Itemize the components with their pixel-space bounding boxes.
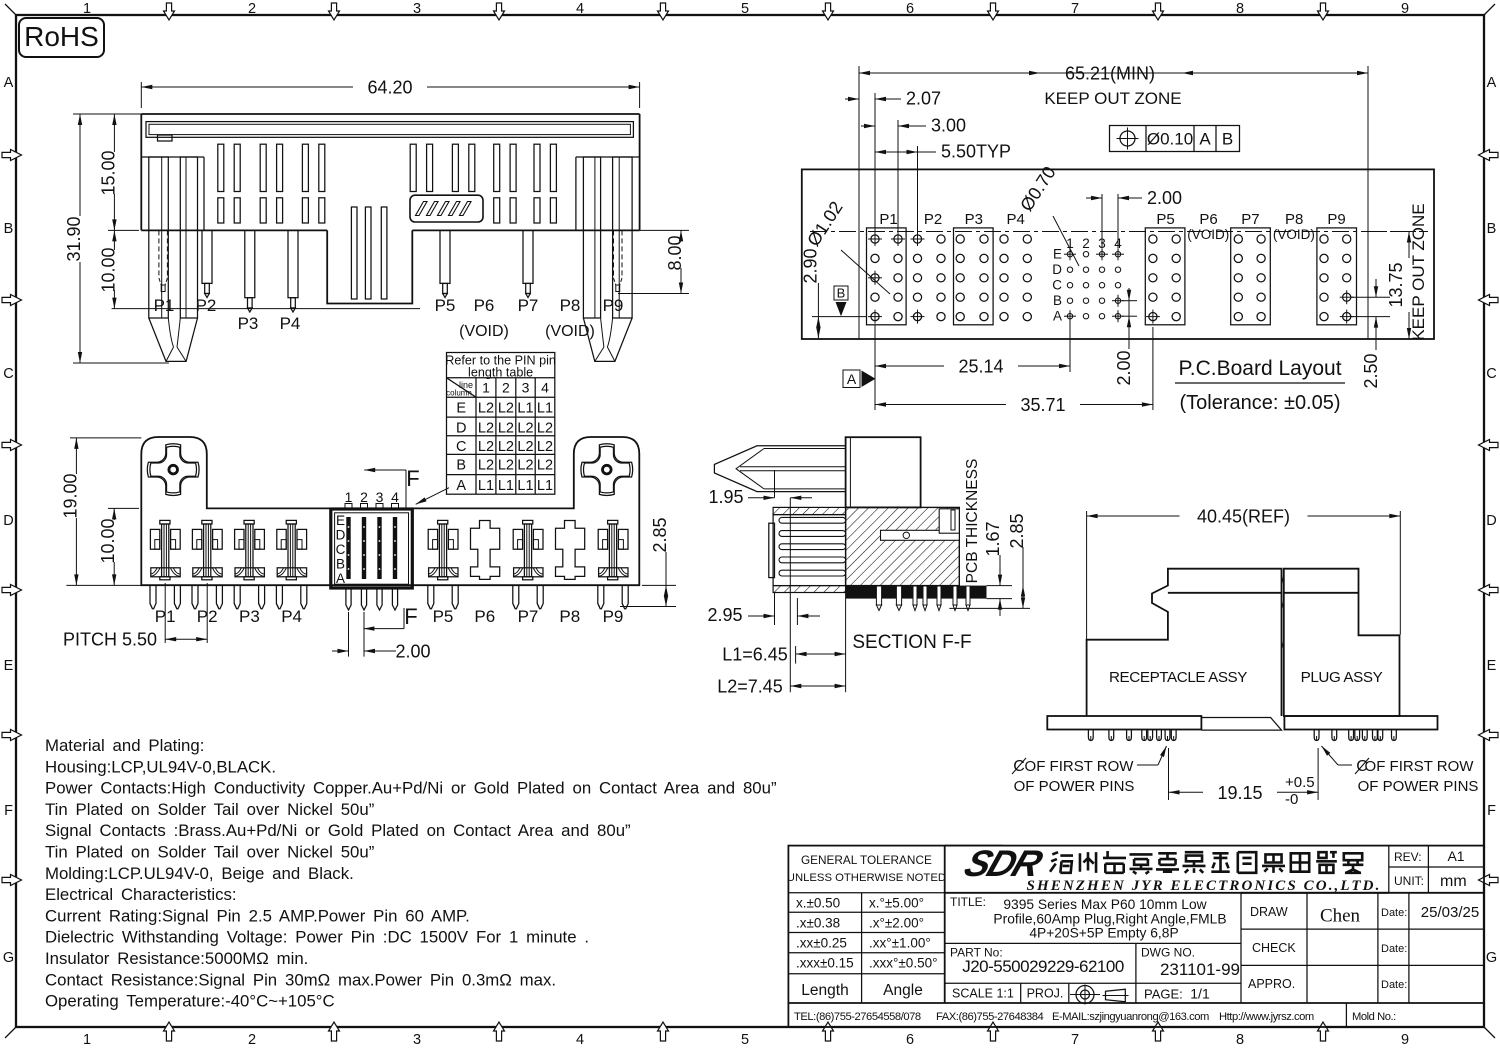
svg-text:25.14: 25.14: [958, 356, 1003, 376]
svg-text:.x°±2.00°: .x°±2.00°: [869, 915, 924, 930]
svg-text:F: F: [404, 604, 417, 629]
svg-text:C: C: [336, 542, 346, 557]
front view top card slot: [146, 122, 633, 138]
svg-text:PROJ.: PROJ.: [1027, 987, 1064, 1001]
svg-text:(Tolerance: ±0.05): (Tolerance: ±0.05): [1179, 392, 1340, 414]
svg-text:L1: L1: [498, 478, 514, 494]
svg-text:1: 1: [83, 1, 91, 17]
pin P9 power blades (front): [613, 157, 633, 318]
svg-text:.x±0.38: .x±0.38: [796, 915, 840, 930]
svg-text:B: B: [336, 557, 345, 572]
svg-text:.xxx°±0.50°: .xxx°±0.50°: [869, 955, 937, 970]
svg-text:L2: L2: [537, 420, 553, 436]
svg-text:RoHS: RoHS: [24, 21, 99, 52]
svg-text:P9: P9: [1327, 211, 1345, 228]
svg-text:3.00: 3.00: [931, 116, 966, 136]
svg-text:P1: P1: [879, 211, 897, 228]
front contact window slots row2: [218, 198, 224, 223]
svg-text:9: 9: [1401, 1032, 1409, 1047]
svg-text:KEEP OUT ZONE: KEEP OUT ZONE: [1409, 203, 1428, 340]
svg-text:Date:: Date:: [1381, 979, 1407, 991]
svg-text:4: 4: [541, 380, 549, 396]
svg-text:SCALE 1:1: SCALE 1:1: [952, 987, 1014, 1001]
svg-text:P3: P3: [965, 211, 983, 228]
svg-text:F: F: [1487, 803, 1496, 819]
svg-text:1: 1: [83, 1032, 91, 1047]
dimension 2.85 section: [949, 607, 1030, 609]
svg-text:(VOID): (VOID): [1273, 227, 1315, 242]
dimension 64.20: [140, 82, 142, 108]
dimension pitch 5.50: [164, 583, 166, 643]
dimension 13.75: [1370, 231, 1420, 233]
svg-text:C: C: [456, 439, 466, 455]
svg-text:P5: P5: [1156, 211, 1174, 228]
svg-text:L2: L2: [537, 458, 553, 474]
section contact channel: [881, 530, 960, 540]
svg-text:3: 3: [413, 1032, 421, 1047]
svg-text:F: F: [406, 466, 419, 491]
svg-text:(VOID): (VOID): [545, 323, 595, 340]
svg-text:13.75: 13.75: [1386, 262, 1406, 307]
dimension 2.00 signal rows: [1122, 300, 1137, 302]
company name chinese: [1050, 852, 1073, 873]
svg-text:2: 2: [502, 380, 510, 396]
svg-text:2.00: 2.00: [1114, 350, 1134, 385]
svg-text:6: 6: [906, 1, 914, 17]
bottom view body outline: [141, 437, 639, 585]
svg-text:E: E: [1487, 658, 1497, 674]
svg-text:2.00: 2.00: [1147, 188, 1182, 208]
bottom view pins: [150, 585, 156, 609]
dimension 19.00: [70, 437, 141, 439]
dimension 2.07: [874, 93, 876, 235]
svg-text:L2: L2: [498, 439, 514, 455]
pcb centerline: [810, 231, 1428, 233]
svg-text:8.00: 8.00: [665, 235, 685, 270]
svg-text:REV:: REV:: [1394, 850, 1422, 864]
svg-text:Mold No.:: Mold No.:: [1352, 1011, 1396, 1023]
center seam marks: [1282, 575, 1284, 585]
svg-text:1: 1: [345, 489, 353, 505]
svg-text:P7: P7: [518, 296, 539, 315]
svg-text:2.95: 2.95: [707, 605, 742, 625]
svg-text:2: 2: [248, 1032, 256, 1047]
svg-text:(VOID): (VOID): [1187, 227, 1229, 242]
svg-text:B: B: [837, 286, 846, 301]
svg-text:4: 4: [576, 1032, 584, 1047]
svg-text:Power Contacts:High Conductivi: Power Contacts:High Conductivity Copper.…: [45, 779, 777, 798]
svg-text:1.95: 1.95: [708, 487, 743, 507]
svg-text:L1: L1: [537, 478, 553, 494]
svg-text:L2: L2: [498, 400, 514, 416]
svg-text:OF POWER PINS: OF POWER PINS: [1014, 778, 1135, 795]
svg-text:2.85: 2.85: [1007, 513, 1027, 548]
svg-text:L1=6.45: L1=6.45: [722, 645, 788, 665]
svg-text:G: G: [3, 950, 14, 966]
plug pins: [1314, 730, 1319, 741]
svg-text:2.85: 2.85: [650, 517, 670, 552]
svg-text:6: 6: [906, 1032, 914, 1047]
svg-text:A: A: [336, 571, 345, 586]
svg-text:B: B: [1487, 221, 1497, 237]
svg-text:OF FIRST ROW: OF FIRST ROW: [1365, 758, 1475, 775]
svg-text:2: 2: [248, 1, 256, 17]
svg-text:Molding:LCP.UL94V-0, Beige and: Molding:LCP.UL94V-0, Beige and Black.: [45, 864, 354, 883]
svg-text:L1: L1: [537, 400, 553, 416]
front contact window slots row1: [218, 144, 224, 191]
svg-text:Tin Plated on Solder Tail over: Tin Plated on Solder Tail over Nickel 50…: [45, 800, 374, 819]
svg-text:PAGE:: PAGE:: [1144, 987, 1183, 1002]
svg-text:P6: P6: [474, 607, 495, 626]
keep out zone lines: [858, 66, 860, 339]
svg-text:2.50: 2.50: [1361, 353, 1381, 388]
section top right block: [846, 437, 921, 507]
dimension 3.00: [897, 120, 899, 235]
svg-text:P.C.Board Layout: P.C.Board Layout: [1178, 357, 1341, 380]
dimension 19.15: [1168, 748, 1170, 800]
svg-text:B: B: [1053, 293, 1062, 308]
svg-text:L2: L2: [517, 420, 533, 436]
pcb board outline: [802, 169, 1434, 339]
dimension 2.00 signal pins: [348, 612, 350, 657]
svg-text:Operating Temperature:-40°C~+1: Operating Temperature:-40°C~+105°C: [45, 992, 335, 1011]
svg-text:1.67: 1.67: [983, 521, 1003, 556]
SDYR logo title block: [959, 843, 1049, 885]
dimension 25.14: [874, 325, 876, 410]
datum B symbol: [834, 286, 848, 300]
svg-text:P6: P6: [474, 296, 495, 315]
svg-text:Signal Contacts :Brass.Au+Pd/N: Signal Contacts :Brass.Au+Pd/Ni or Gold …: [45, 821, 631, 840]
svg-text:L1: L1: [517, 400, 533, 416]
svg-text:L2: L2: [517, 439, 533, 455]
svg-text:25/03/25: 25/03/25: [1421, 904, 1479, 921]
dimension 1.67: [987, 585, 1013, 587]
svg-text:7: 7: [1071, 1032, 1079, 1047]
svg-text:L2: L2: [478, 400, 494, 416]
svg-text:SECTION F-F: SECTION F-F: [852, 632, 971, 653]
svg-text:TITLE:: TITLE:: [950, 895, 986, 909]
section pins below pcb: [876, 586, 881, 605]
svg-text:D: D: [456, 420, 466, 436]
svg-text:TEL:(86)755-27654558/078: TEL:(86)755-27654558/078: [794, 1011, 921, 1023]
front small pins P2 P5 P7: [202, 230, 212, 283]
svg-text:7: 7: [1071, 1, 1079, 17]
svg-text:L2: L2: [498, 458, 514, 474]
svg-text:2: 2: [360, 489, 368, 505]
title cell: [945, 892, 1389, 894]
svg-text:Chen: Chen: [1320, 906, 1361, 927]
dimension 15.00: [108, 229, 139, 231]
table leader arrow: [416, 488, 449, 505]
svg-text:column: column: [446, 389, 472, 398]
section comb front: [773, 515, 846, 586]
svg-text:P8: P8: [560, 296, 581, 315]
dimension 65.21(MIN) keep out zone: [859, 72, 1040, 74]
svg-text:8: 8: [1236, 1032, 1244, 1047]
plug pcb strip: [1284, 716, 1437, 730]
svg-text:Date:: Date:: [1381, 907, 1407, 919]
svg-text:P4: P4: [281, 607, 302, 626]
svg-text:.xx°±1.00°: .xx°±1.00°: [869, 935, 931, 950]
pin P1 power blades (front): [149, 157, 169, 318]
svg-text:P4: P4: [280, 314, 301, 333]
svg-text:APPRO.: APPRO.: [1248, 977, 1295, 991]
signal pad grid: [1067, 252, 1072, 257]
svg-text:KEEP OUT ZONE: KEEP OUT ZONE: [1044, 89, 1181, 108]
datum A symbol: [843, 370, 860, 388]
svg-text:Insulator Resistance:5000MΩ mi: Insulator Resistance:5000MΩ min.: [45, 949, 308, 968]
svg-text:2.07: 2.07: [906, 89, 941, 109]
svg-text:3: 3: [413, 1, 421, 17]
crosshair pads: [868, 238, 882, 240]
dimension 10.00: [112, 308, 420, 310]
pad group rects: [867, 228, 907, 325]
svg-text:Http://www.jyrsz.com: Http://www.jyrsz.com: [1219, 1011, 1314, 1023]
svg-text:L2: L2: [478, 439, 494, 455]
svg-text:PITCH 5.50: PITCH 5.50: [63, 630, 157, 650]
svg-text:FAX:(86)755-27648384: FAX:(86)755-27648384: [936, 1011, 1044, 1023]
dimension 2.50: [1350, 296, 1390, 298]
svg-text:4: 4: [391, 489, 399, 505]
svg-text:Ø0.10: Ø0.10: [1147, 130, 1193, 149]
frame tick arrows: [164, 3, 175, 20]
front view body outline: [141, 113, 639, 115]
svg-text:10.00: 10.00: [98, 518, 118, 563]
svg-text:D: D: [1486, 513, 1496, 529]
svg-text:P1: P1: [154, 296, 175, 315]
section cut F markers: [364, 469, 406, 471]
svg-text:C: C: [1052, 278, 1062, 293]
RoHS label: [19, 18, 104, 57]
svg-text:SHENZHEN JYR ELECTRONICS CO.,L: SHENZHEN JYR ELECTRONICS CO.,LTD.: [1027, 878, 1382, 894]
svg-text:P6: P6: [1199, 211, 1217, 228]
svg-text:PLUG ASSY: PLUG ASSY: [1301, 669, 1383, 686]
svg-text:L2: L2: [478, 458, 494, 474]
svg-text:DWG NO.: DWG NO.: [1141, 946, 1195, 960]
contact info row: [1345, 1003, 1347, 1027]
svg-text:2: 2: [1082, 236, 1090, 251]
svg-text:A1: A1: [1447, 848, 1464, 864]
svg-text:Angle: Angle: [883, 982, 923, 999]
svg-text:E: E: [4, 658, 14, 674]
svg-text:PCB THICKNESS: PCB THICKNESS: [964, 459, 981, 584]
dimension 2.00 signal cols: [1101, 194, 1103, 248]
svg-text:35.71: 35.71: [1020, 395, 1065, 415]
svg-text:P7: P7: [1241, 211, 1259, 228]
svg-text:P9: P9: [603, 607, 624, 626]
mounting ear cutouts: [147, 444, 199, 496]
svg-text:4: 4: [576, 1, 584, 17]
dimension 8.00: [640, 229, 689, 231]
front middle lower block: [327, 230, 412, 303]
svg-text:Tin Plated on Solder Tail over: Tin Plated on Solder Tail over Nickel 50…: [45, 843, 374, 862]
svg-text:P3: P3: [239, 607, 260, 626]
feature control frame: [1110, 126, 1240, 152]
dimension 31.90: [73, 113, 141, 115]
svg-text:40.45(REF): 40.45(REF): [1197, 506, 1290, 526]
svg-text:+0.5: +0.5: [1285, 774, 1315, 791]
svg-text:DRAW: DRAW: [1250, 905, 1288, 919]
svg-text:Material and Plating:: Material and Plating:: [45, 736, 204, 755]
svg-text:9395 Series Max P60 10mm Low: 9395 Series Max P60 10mm Low: [1003, 897, 1206, 912]
plug assy outline: [1284, 569, 1400, 716]
svg-text:CHECK: CHECK: [1252, 941, 1296, 955]
svg-text:1/1: 1/1: [1190, 986, 1210, 1002]
svg-text:G: G: [1486, 950, 1497, 966]
svg-text:B: B: [1222, 130, 1233, 149]
svg-text:1: 1: [482, 380, 490, 396]
svg-text:31.90: 31.90: [64, 216, 84, 261]
svg-text:(VOID): (VOID): [459, 323, 509, 340]
svg-text:L2: L2: [478, 420, 494, 436]
svg-text:x.°±5.00°: x.°±5.00°: [869, 895, 924, 910]
svg-text:C: C: [3, 366, 13, 382]
svg-text:19.15: 19.15: [1217, 783, 1262, 803]
svg-text:B: B: [456, 458, 466, 474]
svg-text:A: A: [1053, 309, 1062, 324]
svg-text:C: C: [1486, 366, 1496, 382]
svg-text:8: 8: [1236, 1, 1244, 17]
svg-text:L1: L1: [478, 478, 494, 494]
svg-text:Date:: Date:: [1381, 943, 1407, 955]
svg-text:mm: mm: [1440, 873, 1467, 890]
power pad groups: [871, 235, 879, 243]
scale row: [945, 982, 1241, 984]
right info cells: [1388, 846, 1390, 893]
svg-text:231101-99: 231101-99: [1160, 960, 1240, 979]
dimension 2.85 bottom view: [642, 584, 676, 586]
svg-text:E: E: [1053, 247, 1062, 262]
svg-text:P5: P5: [435, 296, 456, 315]
svg-text:P8: P8: [1285, 211, 1303, 228]
svg-text:5.50TYP: 5.50TYP: [941, 142, 1011, 162]
svg-text:P4: P4: [1007, 211, 1025, 228]
svg-text:D: D: [1052, 262, 1062, 277]
svg-text:64.20: 64.20: [367, 77, 412, 97]
dimension 35.71: [1152, 327, 1154, 410]
svg-text:L2: L2: [517, 458, 533, 474]
receptacle pins: [1088, 730, 1093, 741]
svg-text:L2: L2: [537, 439, 553, 455]
section mating blade left: [714, 446, 845, 492]
svg-text:Profile,60Amp Plug,Right Angle: Profile,60Amp Plug,Right Angle,FMLB: [993, 912, 1226, 927]
svg-text:J20-550029229-62100: J20-550029229-62100: [962, 957, 1124, 976]
svg-text:2.90: 2.90: [801, 248, 821, 283]
svg-text:A: A: [1487, 75, 1497, 91]
svg-text:P8: P8: [559, 607, 580, 626]
receptacle pcb strip: [1047, 716, 1201, 730]
svg-text:Dielectric Withstanding Voltag: Dielectric Withstanding Voltage: Power P…: [45, 928, 589, 947]
svg-text:P3: P3: [238, 314, 259, 333]
dimension 40.45(REF): [1086, 511, 1088, 639]
svg-text:OF FIRST ROW: OF FIRST ROW: [1025, 758, 1135, 775]
section housing hatched: [846, 507, 960, 585]
svg-text:-0: -0: [1285, 791, 1298, 808]
svg-text:UNIT:: UNIT:: [1394, 874, 1424, 888]
svg-text:65.21(MIN): 65.21(MIN): [1065, 64, 1155, 84]
svg-text:4P+20S+5P Empty 6,8P: 4P+20S+5P Empty 6,8P: [1029, 926, 1178, 941]
title block grid: [788, 846, 1484, 1027]
svg-text:E-MAIL:szjingyuanrong@163.com: E-MAIL:szjingyuanrong@163.com: [1052, 1011, 1209, 1023]
svg-text:Length: Length: [801, 982, 848, 999]
part no cell: [945, 942, 1241, 944]
svg-text:L1: L1: [517, 478, 533, 494]
front pins P3 P4: [245, 230, 255, 297]
SDYR logo small: [410, 195, 483, 222]
svg-text:E: E: [336, 513, 345, 528]
front side blocks: [141, 156, 204, 158]
svg-text:A: A: [847, 371, 857, 387]
svg-text:Electrical Characteristics:: Electrical Characteristics:: [45, 885, 237, 904]
power contacts in bottom view: [150, 529, 159, 549]
svg-text:15.00: 15.00: [98, 150, 118, 195]
svg-text:2.00: 2.00: [395, 642, 430, 662]
svg-text:P2: P2: [924, 211, 942, 228]
dimension 5.50TYP: [917, 146, 919, 235]
section top right cutout: [939, 509, 959, 533]
svg-text:19.00: 19.00: [60, 473, 80, 518]
svg-text:.xx±0.25: .xx±0.25: [796, 935, 847, 950]
svg-text:B: B: [4, 221, 14, 237]
void cutouts P6 P8: [471, 521, 500, 580]
svg-text:Housing:LCP,UL94V-0,BLACK.: Housing:LCP,UL94V-0,BLACK.: [45, 757, 276, 776]
svg-text:9: 9: [1401, 1, 1409, 17]
svg-text:OF POWER PINS: OF POWER PINS: [1358, 778, 1479, 795]
svg-text:P7: P7: [518, 607, 539, 626]
svg-text:10.00: 10.00: [98, 247, 118, 292]
svg-text:L2=7.45: L2=7.45: [717, 677, 783, 697]
svg-text:UNLESS OTHERWISE NOTED: UNLESS OTHERWISE NOTED: [787, 872, 946, 884]
svg-text:Contact Resistance:Signal Pin: Contact Resistance:Signal Pin 30mΩ max.P…: [45, 970, 556, 989]
svg-text:D: D: [3, 513, 13, 529]
svg-text:A: A: [1199, 130, 1211, 149]
svg-text:A: A: [456, 478, 466, 494]
svg-text:A: A: [4, 75, 14, 91]
svg-text:3: 3: [376, 489, 384, 505]
svg-text:x.±0.50: x.±0.50: [796, 895, 840, 910]
svg-text:RECEPTACLE ASSY: RECEPTACLE ASSY: [1109, 669, 1247, 686]
svg-text:F: F: [4, 803, 13, 819]
section PCB bar: [846, 586, 987, 599]
svg-text:.xxx±0.15: .xxx±0.15: [796, 955, 854, 970]
dimension 10.00 bottom view: [108, 507, 139, 509]
svg-text:P2: P2: [196, 296, 217, 315]
svg-text:3: 3: [522, 380, 530, 396]
svg-text:5: 5: [741, 1032, 749, 1047]
svg-text:D: D: [336, 528, 346, 543]
svg-text:5: 5: [741, 1, 749, 17]
svg-text:Current Rating:Signal Pin 2.5: Current Rating:Signal Pin 2.5 AMP.Power …: [45, 906, 470, 925]
svg-text:GENERAL TOLERANCE: GENERAL TOLERANCE: [801, 853, 932, 867]
svg-text:P5: P5: [433, 607, 454, 626]
svg-text:L2: L2: [498, 420, 514, 436]
svg-text:E: E: [456, 400, 466, 416]
central signal block: [331, 509, 413, 588]
receptacle assy outline: [1087, 569, 1282, 716]
pin length table: [447, 353, 555, 495]
svg-text:P9: P9: [603, 296, 624, 315]
